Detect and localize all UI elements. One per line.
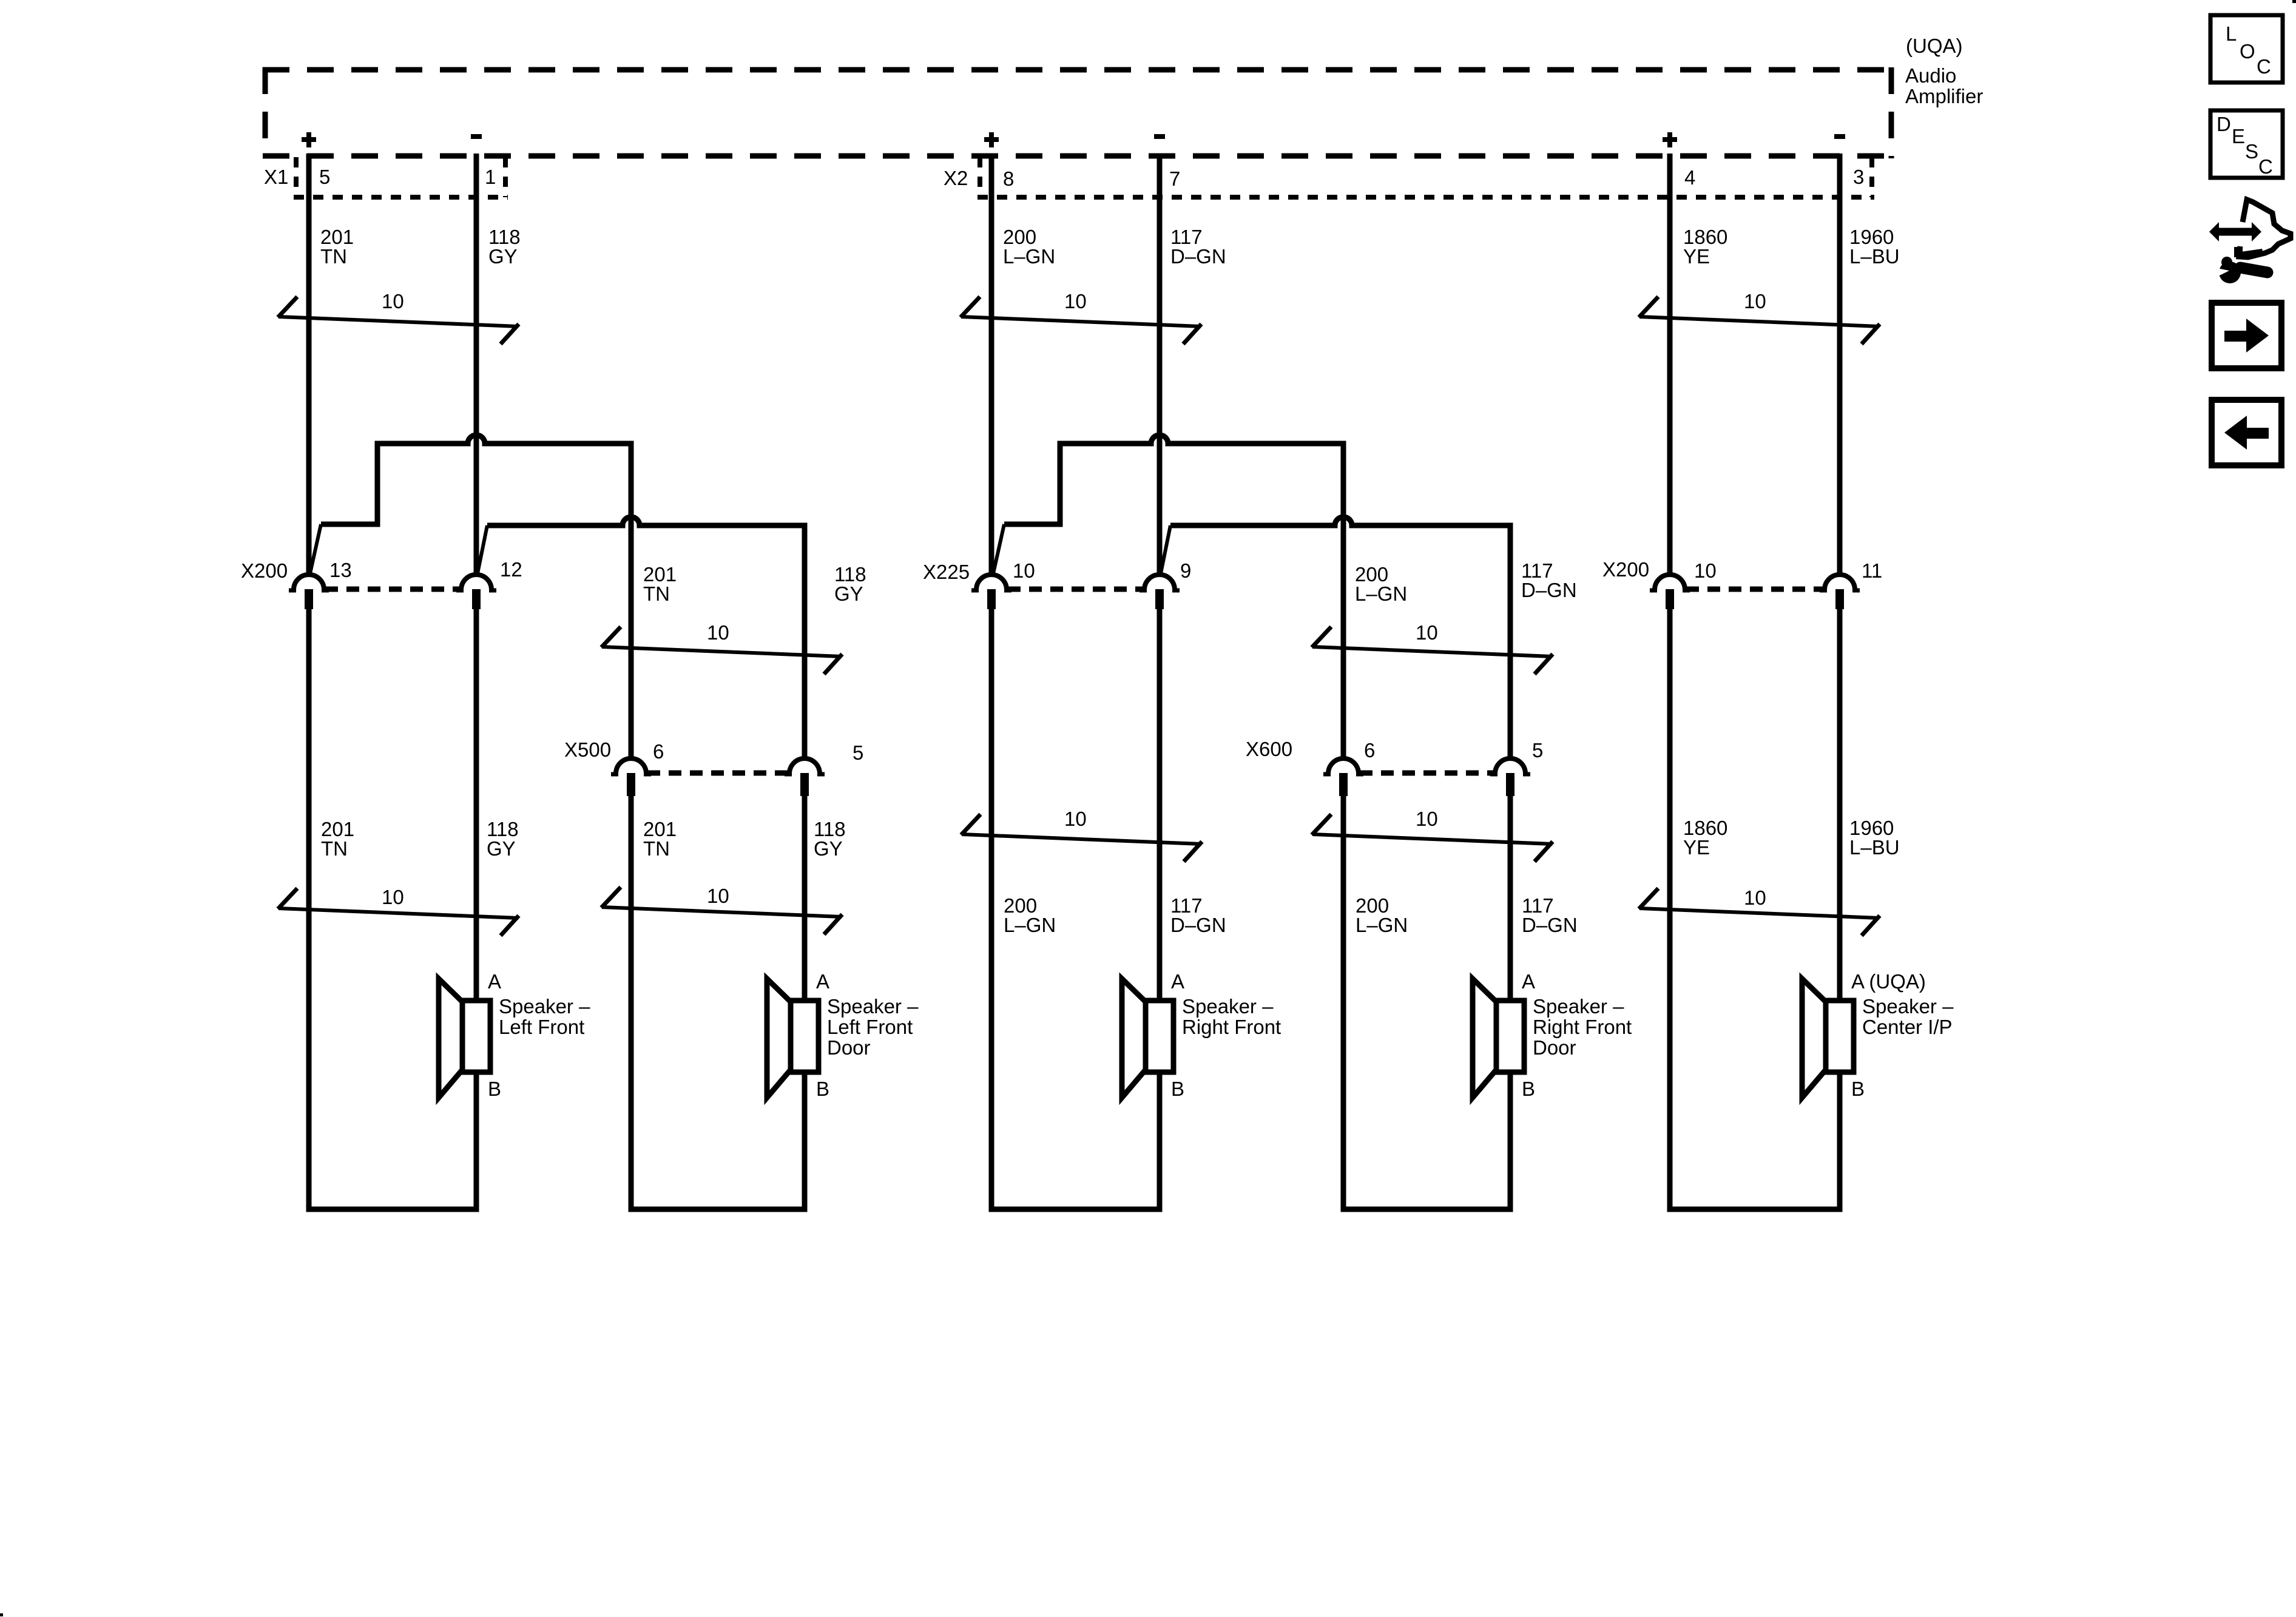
svg-text:O: O [2240, 40, 2255, 62]
twisted pair symbol (200/117) below X2 [961, 290, 1201, 344]
wire to Speaker Right Front terminal A [1157, 609, 1163, 1001]
wire 201 TN branch to X500 pin 6 (with hop over 118 GY) [321, 435, 631, 757]
branch take-off wire at X225 pin 10 [993, 524, 1004, 573]
twisted pair symbol above X600 [1312, 621, 1553, 674]
svg-text:X600: X600 [1246, 738, 1292, 760]
svg-text:1: 1 [485, 166, 496, 188]
connector X1 dashed outline [294, 157, 508, 197]
svg-text:13: 13 [329, 559, 352, 581]
svg-text:A: A [816, 970, 829, 993]
svg-text:X200: X200 [241, 559, 288, 582]
svg-text:Speaker –: Speaker – [499, 995, 590, 1018]
wire 200 L-GN from X2 pin 8 to X225 pin 10 [989, 154, 994, 575]
wire label 200 L-GN (lower) [1004, 894, 1056, 936]
twisted pair symbol (1860/1960) below X2 [1639, 290, 1880, 344]
svg-text:5: 5 [1532, 739, 1543, 761]
wire label 200 L-GN (door branch) [1355, 563, 1407, 605]
label Speaker - Right Front Door [1533, 995, 1632, 1059]
svg-text:X2: X2 [944, 167, 968, 189]
minus terminal (center -) [1834, 134, 1845, 139]
wire 200 L-GN branch to X600 pin 6 (with hop over 117 D-GN) [1004, 435, 1343, 757]
wire label 117 D-GN (door lower) [1522, 894, 1578, 936]
connector X200 pin 12 [456, 575, 496, 609]
svg-text:GY: GY [814, 837, 843, 860]
svg-text:Right Front: Right Front [1182, 1016, 1281, 1038]
wire loop Speaker Center I/P return (to terminal B) [1670, 609, 1840, 1209]
svg-text:TN: TN [643, 582, 670, 605]
svg-text:X500: X500 [564, 738, 611, 761]
connector X500 pin 6 [611, 758, 651, 796]
svg-text:10: 10 [382, 290, 404, 312]
svg-text:8: 8 [1003, 167, 1014, 190]
svg-text:TN: TN [320, 245, 347, 268]
speaker icon - Right Front Door [1473, 979, 1524, 1098]
svg-text:Door: Door [827, 1036, 871, 1059]
svg-text:D–GN: D–GN [1170, 245, 1226, 268]
svg-text:3: 3 [1853, 166, 1864, 188]
wire label 117 D-GN (upper) [1170, 226, 1226, 268]
label Speaker - Center I/P [1862, 995, 1954, 1038]
wire 1860 YE from X2 pin 4 to X200 pin 10 [1667, 154, 1673, 575]
forward arrow box icon [2212, 303, 2281, 368]
svg-text:Left Front: Left Front [499, 1016, 584, 1038]
twisted pair symbol above Speaker Left Front Door [601, 885, 842, 934]
svg-text:10: 10 [1416, 621, 1438, 644]
connector X500 pin 5 [785, 758, 825, 796]
X200 connector dashed link [325, 587, 460, 592]
svg-text:Left Front: Left Front [827, 1016, 913, 1038]
wire label 118 GY (door branch) [834, 563, 866, 605]
svg-text:7: 7 [1169, 167, 1180, 190]
svg-text:Speaker –: Speaker – [827, 995, 919, 1018]
twisted pair symbol above X500 [601, 621, 842, 674]
twisted pair symbol above Speaker Right Front [961, 808, 1202, 862]
label Speaker - Left Front [499, 995, 590, 1038]
X600 connector dashed link [1360, 771, 1494, 776]
svg-text:B: B [1171, 1078, 1184, 1100]
wire loop Speaker Right Front return (to terminal B) [991, 609, 1160, 1209]
connector X200 pin 11 (I/P harness) [1820, 575, 1860, 609]
wire label 117 D-GN (door branch) [1521, 559, 1577, 601]
connector X225 pin 10 [971, 575, 1011, 609]
svg-text:10: 10 [1744, 290, 1766, 312]
wire label 118 GY (lower) [487, 818, 519, 860]
X225 connector dashed link [1008, 587, 1143, 592]
svg-text:L–GN: L–GN [1356, 914, 1408, 936]
svg-text:10: 10 [1416, 808, 1438, 830]
svg-text:D: D [2217, 113, 2231, 135]
svg-text:L–BU: L–BU [1849, 836, 1900, 859]
svg-text:L–GN: L–GN [1355, 582, 1407, 605]
page corner mark top right [2292, 0, 2296, 3]
minus terminal (right front -) [1154, 134, 1165, 139]
connector X200 pin 13 [289, 575, 329, 609]
wire 201 TN from X1 pin 5 to X200 pin 13 [306, 154, 312, 575]
connector X200 pin 10 (I/P harness) [1650, 575, 1690, 609]
Audio Amplifier dashed box outline [263, 67, 1894, 158]
speaker icon - Right Front [1122, 979, 1173, 1098]
svg-text:X225: X225 [923, 561, 970, 583]
svg-text:B: B [1522, 1078, 1535, 1100]
svg-text:L–BU: L–BU [1849, 245, 1900, 268]
wire label 200 L-GN (door lower) [1356, 894, 1408, 936]
svg-text:9: 9 [1180, 559, 1191, 582]
twisted pair symbol (201/118) below X1 [278, 290, 519, 344]
svg-text:10: 10 [1694, 559, 1717, 582]
wire label 201 TN (lower) [321, 818, 354, 860]
svg-text:10: 10 [707, 885, 729, 907]
svg-text:GY: GY [488, 245, 518, 268]
svg-text:Speaker –: Speaker – [1862, 995, 1954, 1018]
svg-text:B: B [488, 1078, 501, 1100]
svg-text:Door: Door [1533, 1036, 1576, 1059]
svg-text:10: 10 [1013, 559, 1035, 582]
svg-text:5: 5 [319, 166, 330, 188]
branch take-off wire at X225 pin 9 [1161, 525, 1170, 573]
X500 connector dashed link [647, 771, 788, 776]
speaker icon - Center I/P [1802, 979, 1854, 1098]
label Speaker - Right Front [1182, 995, 1281, 1038]
svg-text:GY: GY [487, 837, 516, 860]
twisted pair symbol above Speaker Center I/P [1639, 886, 1880, 936]
speaker icon - Left Front [439, 979, 490, 1098]
svg-text:Speaker –: Speaker – [1533, 995, 1624, 1018]
svg-text:(UQA): (UQA) [1906, 35, 1963, 57]
svg-text:4: 4 [1684, 166, 1695, 189]
label (UQA) Audio Amplifier [1905, 35, 1983, 107]
wire label 1860 YE (lower) [1683, 817, 1727, 859]
wire loop Speaker Left Front return (to terminal B) [309, 609, 476, 1209]
svg-text:6: 6 [1364, 739, 1375, 761]
svg-text:Amplifier: Amplifier [1905, 85, 1983, 107]
svg-text:D–GN: D–GN [1521, 579, 1577, 601]
connector X2 dashed outline [977, 157, 1874, 197]
svg-text:Center I/P: Center I/P [1862, 1016, 1953, 1038]
connector X600 pin 6 [1323, 758, 1363, 796]
wire label 117 D-GN (lower) [1170, 894, 1226, 936]
svg-text:TN: TN [321, 837, 348, 860]
svg-text:10: 10 [707, 621, 729, 644]
minus terminal (left front -) [471, 134, 482, 139]
wire label 200 L-GN (upper) [1003, 226, 1055, 268]
twisted pair symbol above Speaker Right Front Door [1312, 808, 1553, 862]
svg-text:A (UQA): A (UQA) [1851, 970, 1926, 993]
svg-text:L: L [2226, 22, 2237, 45]
svg-text:D–GN: D–GN [1170, 914, 1226, 936]
svg-text:A: A [1522, 970, 1535, 993]
svg-text:L–GN: L–GN [1004, 914, 1056, 936]
svg-text:YE: YE [1683, 836, 1710, 859]
plus terminal (right front +) [984, 132, 999, 147]
svg-text:12: 12 [500, 558, 522, 581]
connector X600 pin 5 [1490, 758, 1530, 796]
svg-text:11: 11 [1862, 559, 1882, 582]
connector X225 pin 9 [1140, 575, 1180, 609]
svg-text:C: C [2257, 55, 2271, 78]
svg-text:A: A [488, 970, 501, 993]
svg-text:C: C [2258, 155, 2273, 178]
back arrow box icon [2212, 400, 2281, 465]
svg-text:B: B [816, 1078, 829, 1100]
svg-text:Audio: Audio [1905, 64, 1956, 87]
wire 117 D-GN from X2 pin 7 to X225 pin 9 [1157, 154, 1163, 575]
speaker icon - Left Front Door [767, 979, 819, 1098]
wire 118 GY branch to X500 pin 5 (with hop over branch vertical) [487, 517, 805, 757]
branch take-off wire at X200 pin 13 [310, 524, 321, 573]
svg-text:GY: GY [834, 582, 863, 605]
twisted pair symbol above Speaker Left Front [278, 886, 519, 936]
svg-text:10: 10 [382, 886, 404, 908]
svg-text:10: 10 [1064, 290, 1087, 312]
svg-text:Right Front: Right Front [1533, 1016, 1632, 1038]
svg-text:10: 10 [1064, 808, 1087, 830]
wire label 201 TN (door lower) [643, 818, 677, 860]
page corner mark bottom left [0, 1613, 3, 1616]
svg-text:10: 10 [1744, 886, 1766, 909]
svg-text:S: S [2245, 140, 2258, 163]
wire 1960 L-BU from X2 pin 3 to X200 pin 11 [1837, 154, 1843, 575]
wire label 201 TN (upper) [320, 226, 354, 268]
wire to Speaker Center I/P terminal A [1837, 609, 1843, 1001]
wire label 1960 L-BU (lower) [1849, 817, 1900, 859]
svg-text:B: B [1851, 1078, 1865, 1100]
svg-text:X200: X200 [1602, 558, 1649, 581]
wire loop Speaker Right Front Door return (to terminal B) [1343, 791, 1510, 1209]
svg-text:L–GN: L–GN [1003, 245, 1055, 268]
wire label 118 GY (upper) [488, 226, 521, 268]
LOC reference box icon [2210, 15, 2283, 83]
svg-text:D–GN: D–GN [1522, 914, 1578, 936]
X200 (right) connector dashed link [1686, 587, 1823, 592]
svg-text:A: A [1171, 970, 1184, 993]
wire 118 GY from X1 pin 1 to X200 pin 12 [474, 154, 479, 575]
adjust/repair hand-with-wrench icon [2209, 200, 2291, 283]
wire to Speaker Left Front terminal A [474, 609, 479, 1001]
svg-text:E: E [2232, 125, 2245, 147]
branch take-off wire at X200 pin 12 [478, 525, 487, 573]
svg-text:TN: TN [643, 837, 670, 860]
label Speaker - Left Front Door [827, 995, 919, 1059]
plus terminal (center +) [1663, 132, 1677, 147]
svg-text:6: 6 [653, 740, 664, 763]
wire loop Speaker Left Front Door return (to terminal B) [631, 791, 805, 1209]
svg-text:YE: YE [1683, 245, 1710, 268]
plus terminal (left front +) [302, 132, 316, 147]
wire label 1860 YE (upper) [1683, 226, 1727, 268]
wire label 201 TN (door branch) [643, 563, 677, 605]
wire to Speaker Right Front Door terminal A [1508, 791, 1513, 1001]
DESC reference box icon [2210, 110, 2283, 178]
svg-text:Speaker –: Speaker – [1182, 995, 1274, 1018]
svg-text:X1: X1 [264, 166, 288, 188]
wire label 1960 L-BU (upper) [1849, 226, 1900, 268]
wire 117 D-GN branch to X600 pin 5 (with hop over branch vertical) [1170, 517, 1510, 757]
wire label 118 GY (door lower) [814, 818, 846, 860]
svg-text:5: 5 [853, 741, 863, 764]
wire to Speaker Left Front Door terminal A [802, 791, 808, 1001]
